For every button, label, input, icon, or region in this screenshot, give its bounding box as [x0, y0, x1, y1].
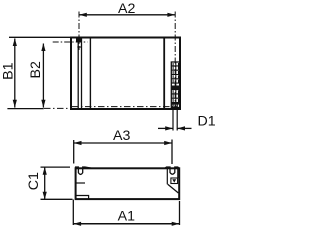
dimension A3 line: [74, 142, 172, 144]
B1 bottom arrow: [13, 100, 17, 108]
top view body outline: [71, 38, 180, 110]
terminal tab triangle: [174, 104, 177, 107]
A1 left extension line: [72, 200, 74, 226]
dimension A1 line: [73, 223, 179, 225]
svg-text:B2: B2: [28, 61, 44, 78]
side view right snap tab with U-notch: [165, 167, 179, 174]
dimension B2 line: [42, 44, 44, 108]
side view right tab leg vertical: [177, 167, 179, 178]
A2 left arrow: [79, 13, 87, 17]
side view left foot: [76, 196, 89, 200]
terminal block row lines: [171, 66, 180, 103]
terminal block outline: [171, 62, 180, 108]
terminal block center divider: [175, 62, 177, 103]
B2 top arrow: [41, 43, 45, 51]
terminal tab below body (D1 extension lines): [173, 104, 177, 131]
svg-text:C1: C1: [26, 172, 42, 190]
C1 top extension line: [41, 166, 71, 168]
side view left internal step line: [76, 182, 85, 184]
A1 left arrow: [73, 222, 81, 226]
svg-text:D1: D1: [198, 114, 216, 130]
A2 right arrow: [167, 13, 175, 17]
B2 bottom arrow: [41, 100, 45, 108]
dimension C1 line: [44, 167, 46, 199]
terminal block cell ticks: [173, 63, 178, 102]
A3 right arrow: [164, 141, 172, 145]
side view body outline: [76, 168, 180, 199]
A1 right extension line: [179, 201, 181, 225]
side view left snap tab with U-notch: [76, 167, 92, 174]
A1 right arrow: [172, 222, 180, 226]
A3 left extension line: [73, 140, 75, 164]
slot vertical centerline: [78, 12, 80, 51]
side view terminal box: [171, 178, 178, 184]
mounting slot keyhole bottom: [77, 46, 81, 48]
top view right inner wall: [163, 38, 165, 110]
top view left flange line 1: [77, 38, 79, 110]
dimension D1 right line: [177, 127, 191, 129]
slot horizontal centerline: [53, 41, 88, 43]
dimension A2 line: [79, 14, 175, 16]
dimension D1 left line: [158, 127, 173, 129]
C1 bottom extension line: [41, 198, 73, 200]
D1 left arrow: [165, 126, 173, 130]
terminal block lower dark band: [171, 103, 180, 105]
right terminal centerline: [174, 12, 176, 109]
svg-text:A1: A1: [118, 209, 135, 225]
side view right end diagonal: [168, 184, 179, 193]
dimension B1 line: [14, 39, 16, 108]
mounting slot top-left (filled): [76, 37, 82, 42]
B1 top arrow: [13, 38, 17, 46]
D1 right arrow: [177, 126, 185, 130]
B1 top extension line: [9, 36, 75, 38]
A3 left arrow: [74, 141, 82, 145]
C1 bottom arrow: [43, 192, 47, 200]
top view inner left panel line: [89, 38, 91, 110]
svg-text:A2: A2: [118, 1, 135, 17]
side view terminal box triangle: [172, 179, 176, 182]
svg-text:A3: A3: [113, 128, 130, 144]
B1/B2 bottom extension line solid: [7, 108, 43, 110]
C1 top arrow: [43, 167, 47, 175]
terminal block dark band: [171, 86, 180, 90]
A3 right extension line: [171, 140, 173, 165]
side view right inner wall: [166, 168, 168, 184]
B1/B2 bottom extension line dashdot: [44, 107, 71, 109]
bottom fixing centerline inside body: [72, 106, 173, 108]
top view left flange line 2: [81, 38, 83, 110]
svg-text:B1: B1: [1, 62, 17, 79]
